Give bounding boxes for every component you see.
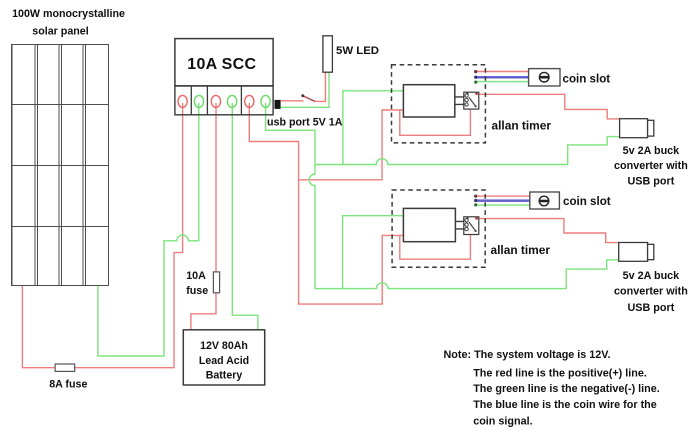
wire red: coin slot 2 feed xyxy=(476,195,530,197)
svg-text:fuse: fuse xyxy=(186,285,208,297)
wire red: SCC terminal 3 via 10A fuse to battery + xyxy=(191,103,216,330)
coin slot 1 box xyxy=(529,69,560,86)
wire green: coin slot 1 feed xyxy=(476,81,529,83)
svg-text:allan timer: allan timer xyxy=(492,118,552,132)
switch SW1 blade xyxy=(303,96,315,102)
svg-text:Note: The system voltage is 12: Note: The system voltage is 12V. xyxy=(444,349,611,361)
wire red: branch at node (298.6,179.8) to timer 1 xyxy=(299,110,404,180)
relay K2 xyxy=(464,217,479,235)
wire red: SCC terminal 5 trunk to both allan timers xyxy=(249,103,403,304)
svg-text:8A fuse: 8A fuse xyxy=(49,378,87,390)
svg-text:12V 80Ah: 12V 80Ah xyxy=(200,340,248,352)
svg-text:100W monocrystalline: 100W monocrystalline xyxy=(12,8,125,20)
svg-text:10A SCC: 10A SCC xyxy=(187,56,256,73)
wire green: branch up to timer 2 input xyxy=(343,216,404,289)
terminal 4 (-) xyxy=(228,95,237,107)
wire red: coin slot 1 feed xyxy=(476,71,529,73)
svg-text:5v 2A buck: 5v 2A buck xyxy=(623,145,681,157)
battery BT1 xyxy=(183,330,264,385)
fuse F2 10A xyxy=(213,272,219,293)
usb port connector (black) xyxy=(275,100,281,109)
wire green: upper bus from node (315,164.5) with hop over red to buck converter 1 xyxy=(315,137,620,165)
svg-text:The blue line is the coin wire: The blue line is the coin wire for the xyxy=(473,399,657,411)
terminal 3 (+) xyxy=(211,95,220,107)
svg-text:coin slot: coin slot xyxy=(563,195,611,208)
node pins: coin connector 2 xyxy=(474,195,477,207)
svg-text:5v 2A buck: 5v 2A buck xyxy=(623,270,681,282)
buck converter 2 xyxy=(619,243,654,262)
wire green: SCC terminal 2 to panel - with hop over red xyxy=(98,103,199,356)
wire green: SCC terminal 6 trunk down with hop, lower bus to buck converter 2 xyxy=(266,103,619,289)
wire red: usb port to switch xyxy=(281,72,326,101)
svg-text:allan timer: allan timer xyxy=(491,243,551,257)
svg-text:The red line is the positive(+: The red line is the positive(+) line. xyxy=(473,367,647,379)
svg-text:5W LED: 5W LED xyxy=(336,45,379,57)
solar panel PV1 xyxy=(12,45,109,286)
dashed enclosure: allan timer 2 xyxy=(392,190,485,267)
relay K1 links xyxy=(455,97,464,105)
wire blue: coin signal wire 2 xyxy=(476,199,530,201)
wire green: branch up to timer 1 input xyxy=(343,91,404,165)
wire red: U-loop under timer 2 to relay 2 bottom pin xyxy=(400,235,471,259)
terminal 6 (-) xyxy=(261,95,270,107)
terminal strip of SCC xyxy=(175,86,273,115)
relay K1 xyxy=(464,92,479,109)
svg-text:usb port 5V 1A: usb port 5V 1A xyxy=(267,116,343,128)
relay K2 links xyxy=(455,221,463,229)
wire red: U-loop under timer 1 to relay 1 bottom pin xyxy=(400,109,471,135)
note text xyxy=(444,349,660,428)
terminal 5 (+) xyxy=(245,95,254,107)
dashed enclosure: allan timer 1 xyxy=(392,65,486,143)
svg-text:Lead Acid: Lead Acid xyxy=(199,355,249,367)
svg-text:coin slot: coin slot xyxy=(563,73,611,86)
wire red: panel + via 8A fuse to SCC terminal 1 xyxy=(22,103,182,368)
terminal 2 (-) xyxy=(194,95,203,107)
svg-text:USB port: USB port xyxy=(628,302,675,314)
wire red: relay 1 output staircase to buck converter 1 xyxy=(477,94,619,119)
svg-text:USB port: USB port xyxy=(628,175,675,187)
svg-text:converter with: converter with xyxy=(614,160,688,172)
svg-text:converter with: converter with xyxy=(614,285,688,297)
node pins: coin connector 1 xyxy=(474,70,477,84)
svg-text:10A: 10A xyxy=(186,270,206,282)
wire red: relay 2 output staircase to buck converter 2 xyxy=(477,219,618,243)
wire blue: coin signal wire 1 xyxy=(476,76,529,78)
timer module U3 body xyxy=(403,208,455,241)
terminal 1 (+) xyxy=(178,95,187,107)
fuse F1 8A xyxy=(55,364,75,371)
LED D1 5W xyxy=(323,36,333,72)
svg-text:coin signal.: coin signal. xyxy=(473,416,532,428)
coin slot 2 box xyxy=(530,192,560,209)
svg-text:solar panel: solar panel xyxy=(32,25,88,37)
wire green: coin slot 2 feed xyxy=(476,204,530,206)
svg-text:The green line is the negative: The green line is the negative(-) line. xyxy=(473,383,660,395)
timer module U2 body xyxy=(403,85,454,117)
buck converter 1 xyxy=(620,119,654,138)
wire green: usb port to LED xyxy=(281,72,329,107)
svg-text:Battery: Battery xyxy=(206,370,243,382)
wire green: SCC terminal 4 to battery - xyxy=(232,103,258,330)
charge controller U1 10A SCC xyxy=(175,39,273,115)
